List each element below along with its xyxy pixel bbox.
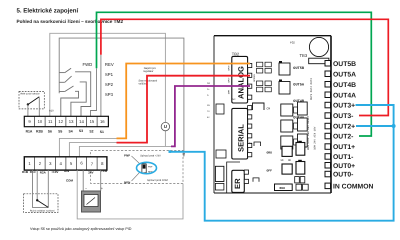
svg-text:CM: CM: [267, 108, 271, 111]
component R09: [275, 184, 293, 191]
svg-text:OUT5 OUT4 OUT3: OUT5 OUT4 OUT3: [310, 78, 313, 100]
relay output dashed box: [19, 91, 44, 109]
svg-text:OUT4B: OUT4B: [333, 82, 356, 89]
svg-text:+10V: +10V: [51, 170, 58, 174]
switch SP2 row: [59, 76, 86, 116]
potentiometer dashed box: [24, 194, 58, 213]
svg-text:NPN: NPN: [124, 181, 130, 185]
svg-text:TB3: TB3: [300, 53, 308, 58]
driver D3: [281, 136, 293, 149]
relay K5B: [279, 63, 290, 75]
wire A: S6 feedback to voltmeter: [50, 33, 166, 122]
svg-text:MR: MR: [288, 159, 291, 162]
svg-text:ANALOG: ANALOG: [237, 66, 246, 99]
svg-text:OUT1+: OUT1+: [333, 144, 355, 151]
svg-text:R1B: R1B: [22, 170, 29, 174]
svg-text:R08: R08: [280, 187, 286, 190]
svg-text:SP1: SP1: [105, 72, 114, 77]
relay can B2: [298, 160, 302, 162]
terminal strip TM2 upper (9-16): [24, 116, 108, 126]
relay K5A: [279, 82, 290, 95]
wire to terminal 9: [27, 105, 29, 117]
component cluster C1: [257, 62, 272, 73]
svg-text:+: +: [101, 187, 103, 191]
svg-text:REV: REV: [105, 62, 114, 67]
mounting hole: [309, 37, 328, 56]
labels under upper strip: [26, 129, 104, 134]
relay bank R2: [298, 118, 308, 131]
svg-text:16: 16: [100, 119, 105, 124]
wire A lower segment: [164, 131, 166, 147]
svg-text:S6: S6: [48, 130, 52, 134]
svg-text:12: 12: [58, 119, 63, 124]
svg-text:RUN STOP FWD REV RESET: RUN STOP FWD REV RESET: [307, 115, 310, 150]
svg-text:OFF: OFF: [267, 169, 273, 172]
relay bank R3: [298, 134, 308, 147]
svg-text:OUT2-: OUT2-: [333, 134, 353, 141]
svg-text:OUT2+: OUT2+: [333, 124, 355, 131]
small pair P1: [295, 177, 300, 183]
svg-text:SG: SG: [207, 82, 210, 85]
frequency meter M1: [82, 191, 101, 212]
wire red REV net: [101, 19, 388, 115]
svg-text:ER: ER: [233, 178, 242, 189]
svg-text:SERIAL: SERIAL: [237, 124, 246, 152]
svg-text:14: 14: [79, 119, 84, 124]
svg-text:13: 13: [69, 119, 74, 124]
svg-text:OUT0-: OUT0-: [333, 172, 353, 179]
blue start marker: [169, 150, 172, 153]
svg-text:OUT1-: OUT1-: [333, 154, 353, 161]
svg-text:24V: 24V: [88, 171, 93, 175]
svg-text:TX: TX: [207, 110, 210, 113]
svg-text:R1C: R1C: [30, 170, 37, 174]
driver D2: [281, 120, 293, 132]
PNP/NPN selector dashed box: [91, 151, 183, 184]
wire FWD drop to terminal 15: [91, 68, 97, 116]
svg-text:SM: SM: [281, 159, 284, 162]
svg-text:S5: S5: [58, 130, 62, 134]
svg-text:SP0+: SP0+: [228, 65, 231, 71]
svg-text:A10: A10: [49, 110, 54, 113]
svg-text:RX: RX: [207, 104, 211, 107]
svg-text:S4: S4: [69, 130, 73, 134]
svg-text:Relé uvnitř měniče: Relé uvnitř měniče: [21, 93, 41, 96]
wire to terminal 10: [38, 98, 40, 117]
left edge component E2: [216, 150, 226, 158]
wire +10V: [59, 138, 116, 156]
arrowhead wire B end: [183, 153, 185, 158]
svg-text:S2: S2: [89, 130, 93, 134]
svg-text:SP3: SP3: [105, 92, 114, 97]
selector switch S: [142, 164, 146, 173]
frame under hole: [309, 58, 329, 64]
svg-text:−: −: [85, 187, 87, 191]
component cluster C2: [257, 81, 272, 92]
cap A2: [282, 164, 292, 174]
svg-text:IN COMMON: IN COMMON: [333, 183, 373, 190]
svg-text:U: U: [164, 124, 167, 129]
driver D1: [281, 104, 293, 116]
svg-text:PNP: PNP: [124, 153, 130, 157]
pcb trace: [227, 162, 240, 193]
wire REV drop to terminal 16: [100, 55, 102, 117]
svg-text:COM: COM: [66, 178, 74, 182]
svg-text:SP0−: SP0−: [228, 77, 231, 83]
switch SP1 row: [59, 68, 90, 116]
labels under lower strip: [22, 169, 108, 183]
wire blue OUT2+ branch: [356, 125, 394, 127]
svg-text:SP2: SP2: [105, 82, 114, 87]
svg-text:F02: F02: [290, 41, 295, 45]
SERIAL pins: [248, 106, 252, 157]
left edge component E1: [216, 104, 224, 114]
svg-text:OUT0+: OUT0+: [333, 163, 355, 170]
voltmeter U1: [161, 122, 169, 130]
tiny pin names left: [228, 65, 236, 101]
svg-text:S3: S3: [79, 129, 83, 133]
svg-text:OUT5A: OUT5A: [333, 71, 356, 78]
meter wires: [82, 170, 84, 191]
svg-text:Spínací proti +24V: Spínací proti +24V: [140, 155, 161, 158]
connector TB2 SERIAL: [232, 108, 248, 159]
wire COM to selector: [77, 170, 183, 219]
wire B: switch common bus to PNP/NPN selector: [59, 38, 184, 156]
POWER pins: [244, 170, 248, 184]
svg-text:Ruční ovládání rychlosti: Ruční ovládání rychlosti: [30, 210, 55, 213]
svg-text:OUT3-: OUT3-: [333, 113, 353, 120]
wire red AIN net: [117, 76, 251, 143]
svg-text:Vstup S6 se používá jako analo: Vstup S6 se používá jako analogový zpětn…: [30, 227, 132, 231]
TB2 pins: [248, 63, 252, 99]
pot wiper: [36, 199, 38, 201]
svg-text:5V: 5V: [207, 116, 210, 119]
svg-text:PNP: PNP: [148, 165, 153, 168]
svg-text:10: 10: [38, 119, 43, 124]
jumper CM: [253, 103, 265, 110]
svg-text:regulátor: regulátor: [143, 70, 153, 73]
wire purple COM net: [171, 86, 250, 146]
svg-text:OUT5A: OUT5A: [293, 83, 305, 88]
svg-text:R2B: R2B: [36, 130, 43, 134]
cap A1: [282, 146, 292, 156]
svg-text:S1: S1: [100, 130, 104, 134]
svg-text:+FM: +FM: [101, 169, 108, 173]
relay contact: [27, 103, 29, 105]
silk marks left of PCB: [207, 82, 211, 119]
svg-text:R1A: R1A: [26, 130, 33, 134]
junction blue: [392, 124, 396, 128]
connector TB2 ANALOG: [232, 56, 248, 103]
component SM bracket: [253, 178, 259, 182]
svg-text:COM 24V AIN 10V: COM 24V AIN 10V: [314, 126, 317, 150]
switch SP3 row: [59, 86, 78, 116]
svg-text:OUT4A: OUT4A: [333, 92, 356, 99]
svg-text:OR8: OR8: [267, 152, 273, 155]
relay bank R1: [298, 102, 308, 115]
svg-text:SPRWV: SPRWV: [253, 73, 256, 82]
svg-text:Spínací proti COM: Spínací proti COM: [147, 179, 168, 182]
svg-text:15: 15: [90, 119, 95, 124]
svg-text:OUT5B: OUT5B: [333, 61, 356, 68]
left edge component E3: [215, 166, 224, 181]
TB3 output pins and labels: [325, 61, 373, 191]
svg-text:FWD: FWD: [83, 62, 93, 67]
wire green FWD net: [97, 12, 372, 136]
wire blue 24V net: [170, 105, 394, 221]
svg-text:AIN: AIN: [64, 169, 69, 173]
svg-text:NC: NC: [232, 98, 236, 101]
svg-text:S+: S+: [207, 88, 210, 91]
svg-text:OUT5B: OUT5B: [293, 66, 305, 71]
connector TB2 POWER: [232, 170, 245, 192]
relay can B1: [298, 141, 302, 143]
PCB outline: [214, 36, 331, 193]
left edge component E4: [215, 183, 224, 190]
svg-text:OUT3+: OUT3+: [333, 103, 355, 110]
wire orange +10V net: [117, 64, 251, 139]
terminal strip TM2 lower (1-8): [24, 157, 107, 170]
wire COM: [79, 146, 171, 156]
wire AIN: [69, 143, 116, 157]
svg-text:S-: S-: [207, 94, 209, 97]
svg-text:R2A: R2A: [40, 171, 47, 175]
svg-text:SPR: SPR: [228, 89, 231, 94]
pot wires: [33, 170, 49, 207]
svg-text:TB2: TB2: [232, 51, 240, 56]
svg-text:5. Elektrické zapojení: 5. Elektrické zapojení: [17, 8, 79, 15]
svg-text:11: 11: [48, 119, 53, 124]
bottom row rects: [296, 184, 302, 190]
highlight ellipse: [137, 162, 157, 173]
